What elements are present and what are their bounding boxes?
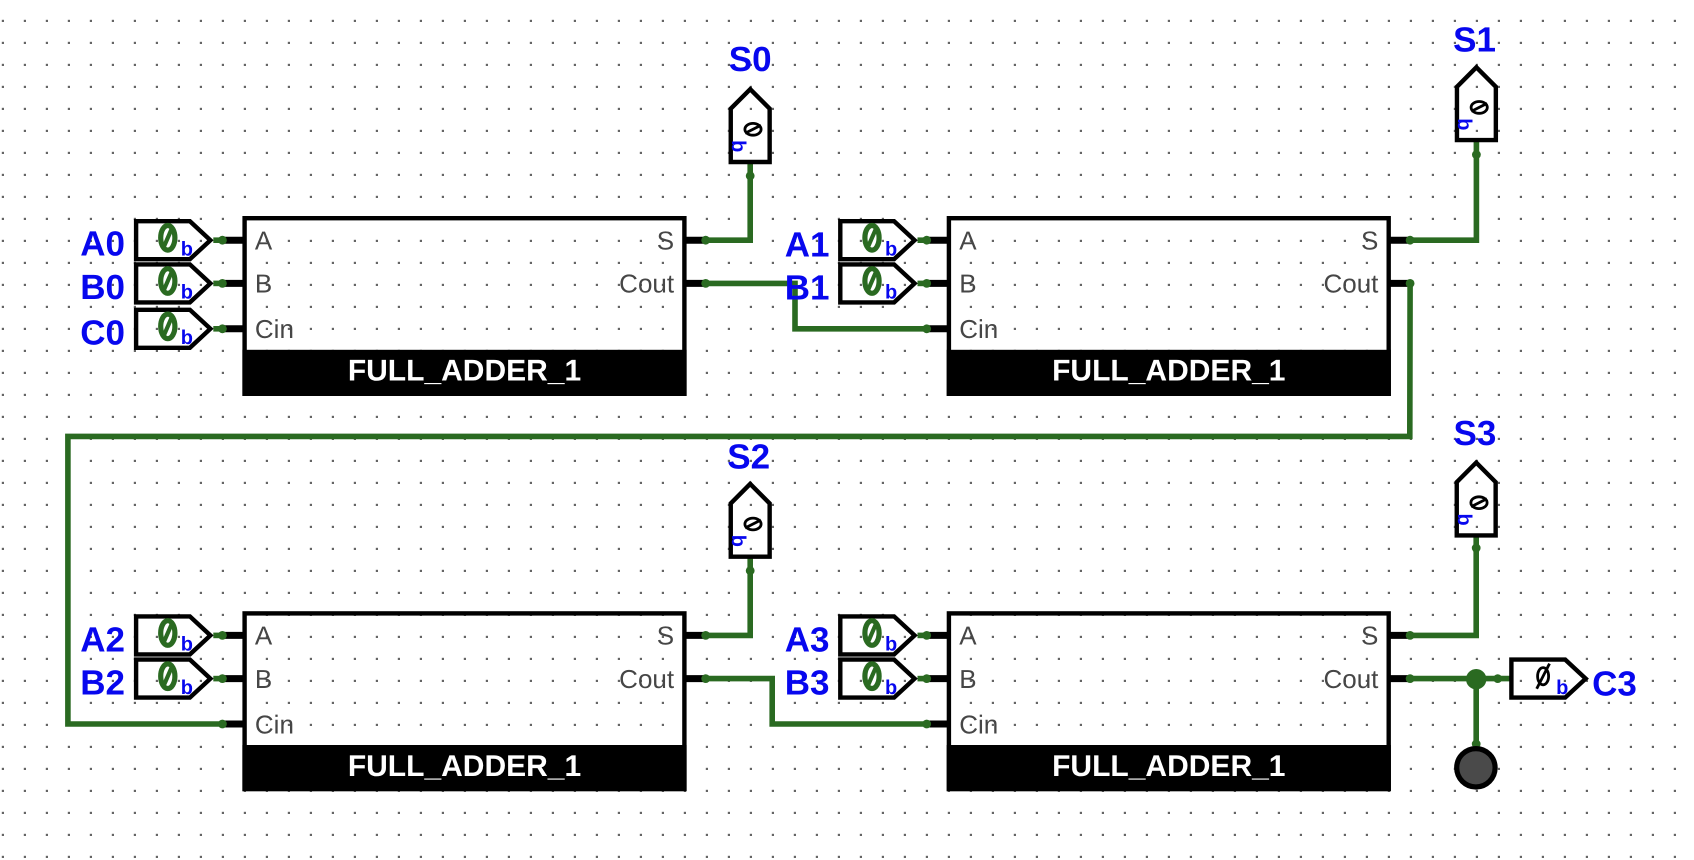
svg-text:Cin: Cin [959,314,998,344]
wire U1.Cout to U2.Cin [706,283,927,328]
svg-text:B: B [255,664,272,694]
wire A0 to U1.A [213,237,225,243]
svg-text:S: S [657,621,674,651]
pin stub U2.B [927,280,949,287]
svg-text:B: B [959,269,976,299]
svg-text:A: A [959,621,977,651]
svg-text:A1: A1 [785,225,830,264]
pin stub U4.A [927,632,949,639]
output tag S1 [1457,67,1496,140]
svg-text:Cout: Cout [1323,269,1379,299]
svg-text:S1: S1 [1453,21,1496,60]
svg-text:S3: S3 [1453,414,1496,453]
node B1-U2.B [922,279,931,288]
node U3.S [701,631,710,640]
wire A1 to U2.A [918,237,930,243]
wire B3 to U4.B [918,676,930,682]
node B3-U4.B [922,674,931,683]
pin stub U1.B [222,280,244,287]
pin stub U1.A [222,237,244,244]
pin stub U3.Cin [222,721,244,728]
svg-text:A3: A3 [785,621,830,660]
svg-text:b: b [885,282,897,304]
title bar U3 [242,745,686,791]
wire U3.S to S2 tag [706,559,751,636]
node S2 tag port [746,566,755,575]
svg-text:b: b [727,535,749,547]
svg-text:b: b [181,282,193,304]
pin stub U2.Cout [1389,280,1411,287]
svg-text:A: A [255,621,273,651]
node U3.Cin [218,720,227,729]
wire U4.S to S3 tag [1410,535,1476,635]
pin stub U2.Cin [927,325,949,332]
wire U4.Cout to C3 tag [1410,676,1510,682]
input tag A1 [840,221,914,259]
svg-text:B1: B1 [785,269,830,308]
output tag C3 [1511,660,1585,698]
node A2-U3.A [218,631,227,640]
svg-text:b: b [181,239,193,261]
full adder U1 (FULL_ADDER_1) [245,218,685,394]
output tag S0 [731,89,770,162]
svg-text:Cout: Cout [1323,664,1379,694]
output tag S3 [1457,463,1496,536]
svg-text:Cin: Cin [959,709,998,739]
svg-text:A2: A2 [80,621,125,660]
svg-text:A: A [959,226,977,256]
junction J1 (Cout/C3/lamp) [1466,669,1486,689]
input tag B2 [136,660,210,698]
node U4.Cout [1406,674,1415,683]
svg-text:FULL_ADDER_1: FULL_ADDER_1 [1052,750,1285,783]
svg-text:Cin: Cin [255,709,294,739]
pin stub U4.Cout [1389,675,1411,682]
wire U2.S to S1 tag [1410,141,1476,241]
pin stub U3.S [685,632,707,639]
svg-text:b: b [181,634,193,656]
svg-text:S: S [1361,621,1378,651]
node C3 tag port [1493,674,1502,683]
wire U1.S to S0 tag [706,162,751,240]
lamp L1 (dark = off) [1457,749,1495,787]
wire A2 to U3.A [213,633,225,639]
wire U2.Cout to U3.Cin (long) [68,283,1410,724]
svg-text:b: b [885,677,897,699]
svg-text:b: b [181,677,193,699]
node C0-U1.Cin [218,324,227,333]
full adder U2 (FULL_ADDER_1) [949,218,1389,394]
svg-text:B0: B0 [80,268,125,307]
title bar U4 [947,745,1391,791]
node A1-U2.A [922,236,931,245]
pin stub U2.A [927,237,949,244]
node U2.S [1406,236,1415,245]
wire A3 to U4.A [918,633,930,639]
node S3 tag port [1472,544,1481,553]
pin stub U3.B [222,675,244,682]
pin stub U1.S [685,237,707,244]
input tag A2 [136,616,210,654]
node S0 tag port [746,172,755,181]
output tag S2 [731,484,770,557]
input tag A0 [136,221,210,259]
pin stub U2.S [1389,237,1411,244]
svg-text:b: b [885,634,897,656]
input tag C0 [136,310,210,348]
svg-text:C0: C0 [80,313,125,352]
wire B0 to U1.B [213,281,225,287]
svg-text:B2: B2 [80,664,125,703]
svg-text:b: b [1453,118,1475,130]
svg-text:b: b [727,140,749,152]
node U2.Cin [922,324,931,333]
node A0-U1.A [218,236,227,245]
wire B2 to U3.B [213,676,225,682]
node U2.Cout [1406,279,1415,288]
title bar U1 [242,350,686,396]
node A3-U4.A [922,631,931,640]
svg-text:Cout: Cout [619,269,675,299]
wire junction to lamp [1473,679,1479,745]
pin stub U3.A [222,632,244,639]
input tag B3 [840,660,914,698]
node B0-U1.B [218,279,227,288]
pin stub U4.S [1389,632,1411,639]
svg-text:S0: S0 [729,40,772,79]
svg-text:Cin: Cin [255,314,294,344]
svg-text:S: S [1361,226,1378,256]
node U1.Cout [701,279,710,288]
svg-text:FULL_ADDER_1: FULL_ADDER_1 [348,750,581,783]
pin stub U4.Cin [927,721,949,728]
node U1.S [701,236,710,245]
svg-text:b: b [885,239,897,261]
node U4.S [1406,631,1415,640]
title bar U2 [947,350,1391,396]
full adder U3 (FULL_ADDER_1) [245,613,685,789]
wire B1 to U2.B [918,281,930,287]
input tag A3 [840,616,914,654]
pin stub U4.B [927,675,949,682]
full adder U4 (FULL_ADDER_1) [949,613,1389,789]
svg-text:B: B [255,269,272,299]
svg-text:FULL_ADDER_1: FULL_ADDER_1 [348,355,581,388]
svg-text:S2: S2 [727,438,770,477]
svg-text:C3: C3 [1592,665,1637,704]
svg-text:B: B [959,664,976,694]
svg-text:Cout: Cout [619,664,675,694]
svg-text:S: S [657,226,674,256]
pin stub U1.Cout [685,280,707,287]
svg-text:b: b [181,327,193,349]
svg-text:A: A [255,226,273,256]
node lamp port [1472,740,1481,749]
node B2-U3.B [218,674,227,683]
pin stub U1.Cin [222,325,244,332]
input tag B0 [136,264,210,302]
node S1 tag port [1472,150,1481,159]
wire U3.Cout to U4.Cin [706,679,927,724]
node U3.Cout [701,674,710,683]
node U4.Cin [922,720,931,729]
svg-text:FULL_ADDER_1: FULL_ADDER_1 [1052,355,1285,388]
input tag B1 [840,264,914,302]
pin stub U3.Cout [685,675,707,682]
wire C0 to U1.Cin [213,326,225,332]
svg-text:B3: B3 [785,664,830,703]
svg-text:b: b [1556,677,1568,699]
svg-text:b: b [1453,513,1475,525]
svg-text:A0: A0 [80,225,125,264]
